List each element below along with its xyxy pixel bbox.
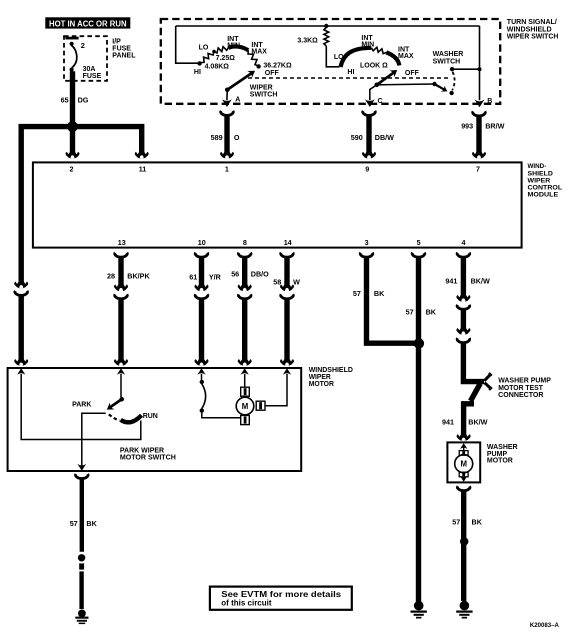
svg-text:MIN: MIN bbox=[227, 43, 240, 50]
svg-text:CONTROL: CONTROL bbox=[528, 184, 563, 191]
svg-text:WIPER SWITCH: WIPER SWITCH bbox=[507, 33, 559, 40]
svg-text:4: 4 bbox=[462, 238, 466, 247]
svg-text:65: 65 bbox=[61, 95, 69, 104]
svg-text:SHIELD: SHIELD bbox=[528, 170, 553, 177]
svg-text:PARK WIPER: PARK WIPER bbox=[120, 447, 164, 454]
svg-text:Y/R: Y/R bbox=[209, 272, 222, 281]
svg-text:B: B bbox=[487, 98, 492, 105]
svg-text:WASHER: WASHER bbox=[433, 51, 464, 58]
svg-text:LOOK Ω: LOOK Ω bbox=[360, 63, 388, 70]
svg-text:DB/W: DB/W bbox=[375, 133, 394, 142]
svg-text:WIND-: WIND- bbox=[528, 163, 547, 170]
svg-text:2: 2 bbox=[70, 165, 74, 174]
svg-text:MODULE: MODULE bbox=[528, 192, 559, 199]
svg-text:941: 941 bbox=[445, 277, 457, 286]
svg-text:HI: HI bbox=[347, 69, 354, 76]
svg-text:O: O bbox=[234, 133, 240, 142]
svg-text:of this circuit: of this circuit bbox=[221, 599, 272, 608]
svg-text:W: W bbox=[293, 277, 300, 286]
svg-text:36.27KΩ: 36.27KΩ bbox=[263, 63, 292, 70]
svg-text:2: 2 bbox=[81, 41, 85, 50]
svg-text:BK: BK bbox=[426, 307, 437, 316]
svg-text:993: 993 bbox=[461, 121, 473, 130]
svg-text:MAX: MAX bbox=[398, 53, 414, 60]
svg-text:WIPER: WIPER bbox=[250, 84, 273, 91]
svg-text:30A: 30A bbox=[83, 66, 96, 73]
svg-text:HI: HI bbox=[194, 69, 201, 76]
svg-text:3: 3 bbox=[365, 238, 369, 247]
svg-text:WINDSHIELD: WINDSHIELD bbox=[507, 26, 552, 33]
svg-text:I/P: I/P bbox=[112, 38, 121, 45]
svg-text:57: 57 bbox=[353, 289, 361, 298]
svg-text:8: 8 bbox=[243, 238, 247, 247]
svg-text:SWITCH: SWITCH bbox=[433, 58, 461, 65]
svg-text:BK/W: BK/W bbox=[468, 418, 487, 427]
svg-text:BR/W: BR/W bbox=[485, 121, 504, 130]
svg-text:WINDSHIELD: WINDSHIELD bbox=[309, 367, 353, 374]
svg-text:TURN SIGNAL/: TURN SIGNAL/ bbox=[507, 19, 557, 26]
svg-text:WIPER: WIPER bbox=[309, 374, 331, 381]
svg-text:590: 590 bbox=[351, 133, 363, 142]
svg-text:A: A bbox=[235, 97, 240, 104]
svg-text:7: 7 bbox=[476, 165, 480, 174]
svg-text:57: 57 bbox=[70, 519, 78, 528]
svg-text:MOTOR: MOTOR bbox=[309, 381, 334, 388]
svg-text:57: 57 bbox=[406, 307, 414, 316]
svg-text:9: 9 bbox=[365, 165, 369, 174]
svg-text:SWITCH: SWITCH bbox=[250, 91, 278, 98]
svg-text:WASHER PUMP: WASHER PUMP bbox=[498, 378, 551, 385]
svg-text:MAX: MAX bbox=[251, 49, 267, 56]
svg-text:56: 56 bbox=[231, 270, 239, 279]
svg-text:BK: BK bbox=[472, 518, 483, 527]
svg-text:K20083–A: K20083–A bbox=[530, 622, 559, 629]
svg-text:BK/W: BK/W bbox=[471, 277, 490, 286]
svg-text:28: 28 bbox=[107, 272, 115, 281]
svg-text:PANEL: PANEL bbox=[112, 53, 136, 60]
svg-text:MIN: MIN bbox=[361, 42, 374, 49]
svg-text:589: 589 bbox=[211, 133, 223, 142]
svg-text:LO: LO bbox=[334, 54, 344, 61]
svg-text:OFF: OFF bbox=[405, 70, 420, 77]
svg-text:BK: BK bbox=[374, 289, 385, 298]
svg-text:61: 61 bbox=[189, 272, 197, 281]
svg-text:HOT IN ACC OR RUN: HOT IN ACC OR RUN bbox=[49, 19, 127, 28]
svg-text:58: 58 bbox=[273, 277, 281, 286]
svg-text:LO: LO bbox=[199, 44, 209, 51]
svg-text:4.08KΩ: 4.08KΩ bbox=[205, 64, 230, 71]
svg-text:RUN: RUN bbox=[143, 413, 158, 420]
svg-text:7.25Ω: 7.25Ω bbox=[216, 55, 236, 62]
svg-text:M: M bbox=[460, 460, 467, 469]
svg-text:MOTOR SWITCH: MOTOR SWITCH bbox=[120, 455, 176, 462]
svg-text:941: 941 bbox=[442, 418, 454, 427]
svg-text:5: 5 bbox=[417, 238, 421, 247]
svg-text:1: 1 bbox=[225, 165, 229, 174]
svg-text:DG: DG bbox=[78, 95, 89, 104]
svg-text:OFF: OFF bbox=[265, 70, 280, 77]
svg-text:C: C bbox=[378, 98, 383, 105]
svg-text:57: 57 bbox=[452, 518, 460, 527]
svg-text:10: 10 bbox=[198, 238, 206, 247]
svg-text:FUSE: FUSE bbox=[83, 73, 102, 80]
svg-text:BK/PK: BK/PK bbox=[127, 272, 150, 281]
svg-text:M: M bbox=[242, 402, 249, 411]
svg-text:BK: BK bbox=[86, 519, 97, 528]
svg-text:13: 13 bbox=[118, 238, 126, 247]
svg-text:CONNECTOR: CONNECTOR bbox=[498, 392, 543, 399]
svg-text:DB/O: DB/O bbox=[251, 270, 269, 279]
svg-text:FUSE: FUSE bbox=[112, 46, 131, 53]
svg-text:PARK: PARK bbox=[72, 401, 91, 408]
svg-text:MOTOR TEST: MOTOR TEST bbox=[498, 385, 543, 392]
svg-text:3.3KΩ: 3.3KΩ bbox=[297, 38, 318, 45]
svg-text:MOTOR: MOTOR bbox=[487, 458, 513, 465]
svg-text:14: 14 bbox=[284, 238, 292, 247]
svg-text:11: 11 bbox=[139, 165, 147, 174]
